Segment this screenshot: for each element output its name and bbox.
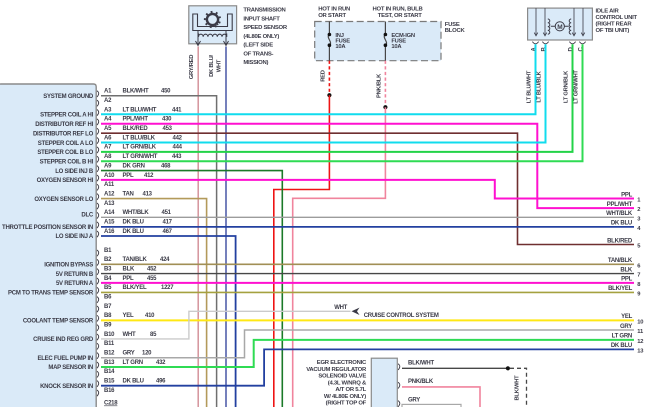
IAC idle air control unit box: [528, 8, 593, 40]
svg-text:FUSE: FUSE: [445, 22, 460, 28]
svg-text:OXYGEN SENSOR LO: OXYGEN SENSOR LO: [34, 197, 93, 203]
pin B14: [97, 369, 115, 377]
svg-text:A1: A1: [104, 89, 112, 95]
svg-text:BLK/YEL: BLK/YEL: [608, 286, 633, 292]
pin A6: [97, 135, 183, 143]
pin A5: [97, 126, 173, 134]
wire A3 LT BLU/WHT 441 to IAC pin A: [101, 44, 536, 114]
pin B6: [97, 294, 112, 302]
svg-text:B7: B7: [104, 304, 112, 310]
pin B12: [97, 350, 152, 358]
svg-text:A11: A11: [104, 182, 115, 188]
svg-text:B10: B10: [104, 332, 115, 338]
svg-text:DK BLU: DK BLU: [611, 343, 632, 349]
svg-text:10A: 10A: [391, 44, 402, 50]
pin B13: [97, 360, 166, 368]
EGR solenoid valve box: [371, 358, 397, 408]
label DK BLU/WHT: [209, 54, 222, 76]
node 7 BLK right exit: [620, 267, 640, 278]
svg-text:KNOCK SENSOR IN: KNOCK SENSOR IN: [40, 384, 93, 390]
fuse block box: [315, 22, 441, 61]
svg-text:BLK: BLK: [123, 266, 135, 272]
svg-text:B12: B12: [104, 350, 115, 356]
node 5 BLK/RED right exit: [607, 238, 641, 249]
svg-text:WHT: WHT: [216, 59, 222, 72]
svg-text:C218: C218: [104, 401, 118, 407]
svg-text:YEL: YEL: [123, 313, 135, 319]
svg-text:(LEFT SIDE: (LEFT SIDE: [243, 43, 273, 49]
wire RED dashed from INJ fuse: [328, 61, 330, 94]
svg-text:OF TBI UNIT): OF TBI UNIT): [596, 28, 630, 34]
svg-text:13: 13: [637, 348, 644, 354]
svg-text:LT BLU/WHT: LT BLU/WHT: [527, 70, 533, 103]
wire A4 PPL/WHT 430 to pin 2: [101, 124, 634, 208]
svg-text:453: 453: [163, 126, 173, 132]
arrow to cruise control system: [352, 308, 360, 315]
wire B3 BLK 452 to pin 7: [101, 273, 634, 275]
svg-text:A5: A5: [104, 126, 112, 132]
svg-text:VACUUM REGULATOR: VACUUM REGULATOR: [306, 367, 367, 373]
svg-text:PPL: PPL: [621, 277, 633, 283]
svg-text:COOLANT TEMP SENSOR: COOLANT TEMP SENSOR: [23, 319, 94, 325]
svg-text:B15: B15: [104, 378, 115, 384]
pin A4: [97, 117, 172, 125]
svg-text:432: 432: [156, 360, 166, 366]
svg-text:A6: A6: [104, 135, 112, 141]
svg-text:STEPPER COIL B HI: STEPPER COIL B HI: [40, 159, 94, 165]
splice dot RED: [327, 93, 331, 97]
svg-text:443: 443: [172, 154, 182, 160]
svg-text:A7: A7: [104, 145, 112, 151]
svg-text:A3: A3: [104, 107, 112, 113]
svg-text:WHT: WHT: [334, 305, 347, 311]
fuse F1 INJ FUSE 10A: [328, 22, 351, 61]
svg-text:5V RETURN A: 5V RETURN A: [56, 281, 94, 287]
pin A11: [97, 182, 115, 190]
pin B16: [97, 388, 115, 396]
fuse block label: [445, 22, 466, 34]
wire A7 LT GRN/BLK 444 to IAC pin D: [101, 44, 573, 152]
wire B5 BLK/YEL 1227 to pin 9: [101, 291, 634, 293]
svg-text:A/T OR 5.7L: A/T OR 5.7L: [335, 387, 366, 393]
pin A2: [97, 98, 112, 106]
node 1 PPL right exit: [621, 192, 641, 203]
svg-text:A4: A4: [104, 117, 112, 123]
svg-text:TAN: TAN: [123, 191, 134, 197]
svg-text:TRANSMISSION: TRANSMISSION: [243, 8, 285, 14]
IAC description text: [596, 9, 638, 34]
wire B15 DK BLU 496 to pin 13: [101, 349, 634, 385]
node 12 LT GRN right exit: [612, 334, 644, 345]
pin A1: [97, 89, 171, 97]
pin B8: [97, 313, 155, 321]
svg-text:BLK/WHT: BLK/WHT: [408, 361, 434, 367]
pin B7: [97, 304, 112, 312]
svg-text:B6: B6: [104, 294, 112, 300]
svg-text:A9: A9: [104, 163, 112, 169]
svg-text:GRY: GRY: [123, 350, 135, 356]
svg-text:DK BLU: DK BLU: [123, 229, 144, 235]
svg-text:7: 7: [637, 273, 640, 279]
svg-text:SPEED SENSOR: SPEED SENSOR: [243, 25, 287, 31]
svg-text:CRUISE IND REG GRD: CRUISE IND REG GRD: [33, 337, 94, 343]
svg-text:DK BLU: DK BLU: [611, 221, 632, 227]
svg-text:424: 424: [160, 257, 170, 263]
svg-text:120: 120: [142, 350, 152, 356]
sensor description text: [243, 8, 287, 67]
svg-text:B16: B16: [104, 388, 115, 394]
svg-text:MISSION): MISSION): [243, 60, 268, 66]
svg-text:CONTROL UNIT: CONTROL UNIT: [596, 15, 638, 21]
svg-text:TEST, OR START: TEST, OR START: [378, 13, 422, 19]
svg-text:STEPPER COIL B LO: STEPPER COIL B LO: [37, 150, 93, 156]
IAC pins A B D C: [531, 42, 585, 52]
svg-text:STEPPER COIL A LO: STEPPER COIL A LO: [38, 141, 94, 147]
svg-text:TAN/BLK: TAN/BLK: [608, 258, 633, 264]
svg-text:GRY/RED: GRY/RED: [189, 55, 195, 80]
svg-text:2: 2: [637, 207, 640, 213]
svg-text:BLK/WHT: BLK/WHT: [515, 375, 521, 401]
svg-text:IDLE AIR: IDLE AIR: [596, 9, 620, 15]
svg-text:DK GRN: DK GRN: [123, 163, 145, 169]
svg-text:(4L80E ONLY): (4L80E ONLY): [243, 34, 279, 40]
label HOT IN RUN OR START: [318, 6, 350, 18]
svg-text:LT BLU/WHT: LT BLU/WHT: [123, 107, 157, 113]
svg-text:467: 467: [163, 229, 173, 235]
wire BLK/WHT dashed off-page: [510, 368, 527, 407]
svg-text:M: M: [557, 24, 562, 31]
svg-text:B1: B1: [104, 248, 112, 254]
svg-text:GRY: GRY: [408, 398, 420, 404]
svg-text:GRY: GRY: [620, 324, 632, 330]
svg-text:LT GRN: LT GRN: [612, 334, 632, 340]
svg-text:LT GRN/WHT: LT GRN/WHT: [123, 154, 158, 160]
svg-text:A16: A16: [104, 229, 115, 235]
svg-text:LT GRN/BLK: LT GRN/BLK: [123, 145, 157, 151]
svg-text:B14: B14: [104, 369, 115, 375]
fuse F2 ECM-IGN FUSE 10A: [384, 22, 415, 61]
node 6 TAN/BLK right exit: [608, 258, 641, 269]
svg-text:SYSTEM GROUND: SYSTEM GROUND: [43, 94, 94, 100]
svg-text:410: 410: [145, 313, 155, 319]
svg-text:(RIGHT TOP OF: (RIGHT TOP OF: [326, 401, 367, 407]
svg-text:A15: A15: [104, 220, 115, 226]
svg-text:468: 468: [161, 163, 171, 169]
svg-text:(RIGHT REAR: (RIGHT REAR: [596, 21, 633, 27]
wire A6 LT BLU/BLK 442 to IAC pin B: [101, 44, 546, 142]
svg-text:417: 417: [163, 220, 173, 226]
node 4 DK BLU right exit: [611, 221, 641, 232]
svg-text:BLK/YEL: BLK/YEL: [123, 285, 148, 291]
svg-text:B8: B8: [104, 313, 112, 319]
svg-text:DK BLU: DK BLU: [123, 220, 144, 226]
svg-text:496: 496: [156, 378, 166, 384]
svg-text:A2: A2: [104, 98, 112, 104]
wire B2 TAN/BLK 424 to pin 6: [101, 263, 634, 265]
svg-text:DISTRIBUTOR REF HI: DISTRIBUTOR REF HI: [35, 122, 93, 128]
svg-text:444: 444: [173, 145, 183, 151]
svg-text:A14: A14: [104, 210, 115, 216]
svg-text:12: 12: [637, 339, 643, 345]
EGR pin GRY wire: [398, 398, 461, 410]
svg-text:BLK: BLK: [620, 267, 632, 273]
svg-text:455: 455: [147, 276, 157, 282]
svg-text:B13: B13: [104, 360, 115, 366]
svg-text:A8: A8: [104, 154, 112, 160]
svg-text:PPL: PPL: [123, 276, 135, 282]
pin A10: [97, 173, 154, 181]
EGR description text: [306, 360, 367, 407]
svg-text:B11: B11: [104, 341, 115, 347]
node 3 WHT/BLK right exit: [606, 211, 641, 222]
connector C1 PCM left connector box: [0, 84, 96, 407]
svg-text:MAP SENSOR IN: MAP SENSOR IN: [48, 365, 93, 371]
svg-text:WHT/BLK: WHT/BLK: [123, 210, 150, 216]
svg-text:HOT IN RUN: HOT IN RUN: [318, 6, 350, 12]
svg-text:(4.3L W/NRQ &: (4.3L W/NRQ &: [328, 380, 367, 386]
wire PNK/BLK dashed from ECM-IGN fuse: [384, 61, 386, 106]
wire B4 PPL 455 to pin 8: [101, 282, 634, 284]
svg-text:LO SIDE INJ B: LO SIDE INJ B: [55, 169, 94, 175]
pin B4: [97, 276, 157, 284]
svg-text:EGR ELECTRONIC: EGR ELECTRONIC: [317, 360, 367, 366]
pin A16: [97, 229, 173, 237]
svg-text:B9: B9: [104, 322, 112, 328]
svg-text:B5: B5: [104, 285, 112, 291]
svg-text:451: 451: [162, 210, 172, 216]
wire A16 DK BLU 467 down: [101, 236, 236, 407]
node 10 YEL right exit: [621, 314, 643, 325]
svg-text:HOT IN RUN, BULB: HOT IN RUN, BULB: [373, 6, 423, 12]
pin B11: [97, 341, 115, 349]
svg-text:PPL: PPL: [123, 173, 135, 179]
svg-text:BLK/WHT: BLK/WHT: [123, 89, 149, 95]
svg-text:WHT: WHT: [123, 332, 136, 338]
svg-text:DLC: DLC: [81, 213, 93, 219]
wire PNK/BLK solid to bottom: [293, 107, 386, 407]
wire A14 WHT/BLK 451 to pin 3: [101, 216, 634, 218]
svg-text:SOLENOID VALVE: SOLENOID VALVE: [318, 374, 366, 380]
svg-text:LT GRN/WHT: LT GRN/WHT: [574, 70, 580, 104]
svg-text:BLOCK: BLOCK: [445, 28, 466, 34]
svg-text:LT BLU/BLK: LT BLU/BLK: [537, 70, 543, 102]
svg-text:INPUT SHAFT: INPUT SHAFT: [243, 16, 280, 22]
node 11 GRY right exit: [620, 324, 644, 335]
wire A8 LT GRN/WHT 443 to IAC pin C: [101, 44, 583, 161]
splice dot PNK/BLK: [383, 105, 387, 109]
svg-text:LO SIDE INJ A: LO SIDE INJ A: [55, 234, 93, 240]
svg-text:441: 441: [172, 107, 182, 113]
svg-text:PPL: PPL: [621, 192, 633, 198]
svg-text:413: 413: [143, 191, 153, 197]
svg-text:ELEC FUEL PUMP IN: ELEC FUEL PUMP IN: [37, 356, 93, 362]
svg-text:OR START: OR START: [318, 13, 346, 19]
pin B10: [97, 332, 157, 340]
wire A10 PPL 412 to pin 1: [101, 180, 634, 199]
svg-text:10: 10: [637, 319, 643, 325]
wire B13 LT GRN 432 to pin 12: [101, 340, 634, 367]
pin B1: [97, 248, 112, 256]
pin A14: [97, 210, 172, 218]
svg-text:PCM TO TRANS TEMP SENSOR: PCM TO TRANS TEMP SENSOR: [8, 291, 94, 297]
svg-text:DK BLU/: DK BLU/: [209, 54, 215, 76]
svg-text:CRUISE CONTROL SYSTEM: CRUISE CONTROL SYSTEM: [364, 313, 439, 319]
svg-text:DISTRIBUTOR REF LO: DISTRIBUTOR REF LO: [33, 131, 94, 137]
node 8 PPL right exit: [621, 277, 641, 288]
svg-text:A10: A10: [104, 173, 115, 179]
wire DK BLU/WHT from speed sensor down: [225, 47, 227, 408]
svg-text:PPL/WHT: PPL/WHT: [123, 117, 149, 123]
pin A3: [97, 107, 182, 115]
svg-text:B2: B2: [104, 257, 112, 263]
pin A8: [97, 154, 182, 162]
wire GRY/RED from speed sensor down: [197, 47, 199, 408]
svg-text:THROTTLE POSITION SENSOR IN: THROTTLE POSITION SENSOR IN: [2, 225, 93, 231]
pin B3: [97, 266, 157, 274]
svg-text:RED: RED: [320, 70, 326, 82]
pin A13: [97, 201, 115, 209]
svg-text:5V RETURN B: 5V RETURN B: [56, 272, 94, 278]
svg-text:A13: A13: [104, 201, 115, 207]
svg-text:DK BLU: DK BLU: [123, 378, 144, 384]
svg-text:LT BLU/BLK: LT BLU/BLK: [123, 135, 156, 141]
svg-text:450: 450: [161, 89, 171, 95]
wire A12 TAN 413 down: [101, 199, 207, 407]
svg-text:IGNITION BYPASS: IGNITION BYPASS: [44, 263, 93, 269]
svg-text:10A: 10A: [335, 44, 346, 50]
svg-text:OF TRANS-: OF TRANS-: [243, 51, 273, 57]
svg-text:B4: B4: [104, 276, 112, 282]
svg-text:85: 85: [150, 332, 157, 338]
wire A1 BLK/WHT 450: [101, 96, 217, 407]
svg-text:YEL: YEL: [621, 314, 633, 320]
pin B5: [97, 285, 174, 293]
svg-text:442: 442: [173, 135, 183, 141]
wire A15 DK BLU 417 to pin 4: [101, 226, 634, 228]
wire B12 GRY 120 to pin 11: [101, 330, 634, 358]
svg-text:PNK/BLK: PNK/BLK: [376, 73, 382, 98]
sensor: transmission input shaft speed sensor box: [189, 6, 237, 46]
pin B9: [97, 322, 112, 330]
svg-text:OXYGEN SENSOR HI: OXYGEN SENSOR HI: [37, 178, 94, 184]
svg-text:430: 430: [162, 117, 172, 123]
pin A15: [97, 220, 173, 228]
wire B10 WHT 85 to cruise control: [101, 311, 351, 339]
EGR pin PNK/BLK wire: [398, 379, 480, 407]
wire B8 YEL 410 to pin 10: [101, 319, 634, 321]
EGR pin BLK/WHT wire and label: [398, 361, 508, 370]
pin B15: [97, 378, 166, 386]
svg-text:TAN/BLK: TAN/BLK: [123, 257, 148, 263]
svg-text:WHT/BLK: WHT/BLK: [606, 211, 633, 217]
svg-text:412: 412: [144, 173, 154, 179]
svg-text:PPL/WHT: PPL/WHT: [607, 202, 633, 208]
svg-text:LT GRN: LT GRN: [123, 360, 143, 366]
node 9 BLK/YEL right exit: [608, 286, 641, 297]
node 2 PPL/WHT right exit: [607, 202, 641, 213]
wire RED solid to bottom: [274, 95, 330, 407]
pin B2: [97, 257, 170, 265]
svg-text:BLK/RED: BLK/RED: [607, 238, 633, 244]
svg-text:LT GRN/BLK: LT GRN/BLK: [564, 70, 570, 103]
pin A7: [97, 145, 183, 153]
pin A9: [97, 163, 171, 171]
svg-text:PNK/BLK: PNK/BLK: [408, 379, 434, 385]
node 13 DK BLU right exit: [611, 343, 644, 354]
svg-text:STEPPER COIL A HI: STEPPER COIL A HI: [40, 113, 93, 119]
svg-text:A12: A12: [104, 191, 115, 197]
svg-text:W/ 4L80E ONLY): W/ 4L80E ONLY): [324, 394, 366, 400]
svg-text:B3: B3: [104, 266, 112, 272]
svg-text:BLK/RED: BLK/RED: [123, 126, 149, 132]
pin A12: [97, 191, 153, 199]
wire A5 BLK/RED 453 to pin 5: [101, 133, 634, 244]
svg-text:452: 452: [147, 266, 157, 272]
svg-text:1227: 1227: [161, 285, 174, 291]
splice dot BLK/WHT: [506, 366, 510, 370]
wire A9 DK GRN 468 down: [101, 171, 282, 407]
label HOT IN RUN, BULB TEST, OR START: [373, 6, 423, 18]
